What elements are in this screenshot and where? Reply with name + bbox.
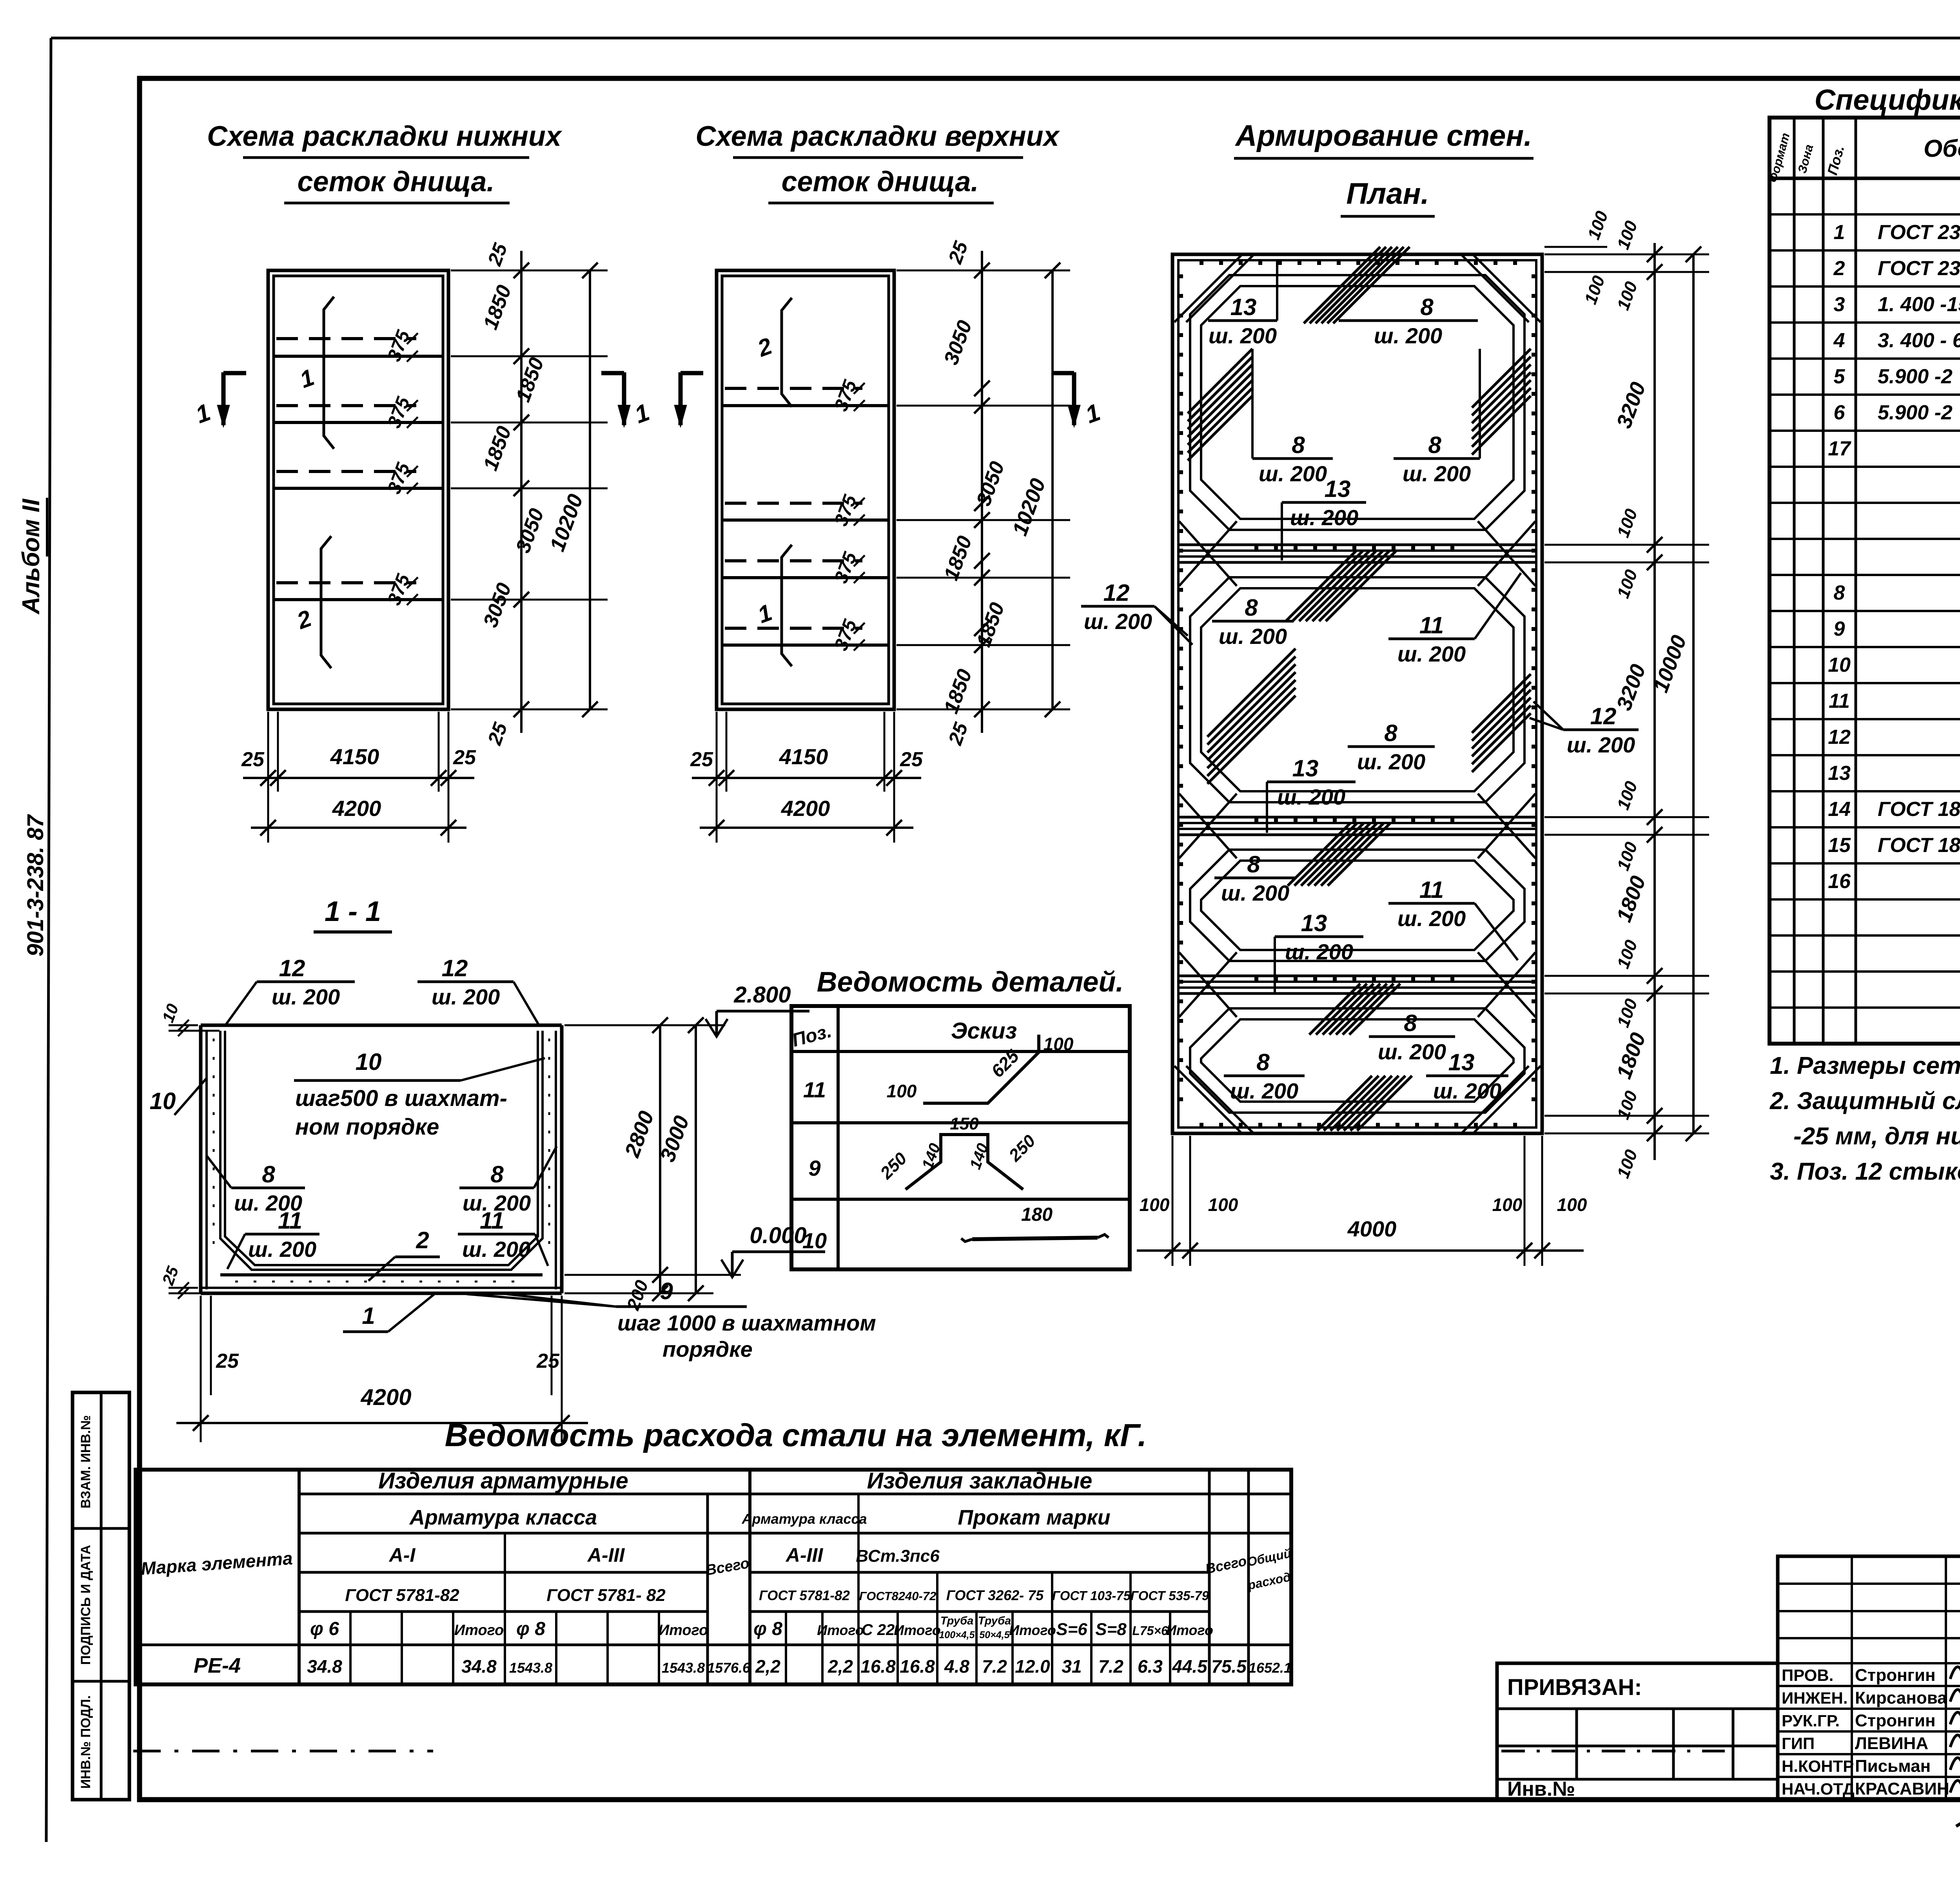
- section walls and slab: [201, 1024, 562, 1027]
- drawing 3 bottom dims 100 4000 100: [1137, 1249, 1584, 1252]
- section mark 1 left of drawing 1: [221, 372, 226, 425]
- svg-text:12: 12: [279, 955, 305, 981]
- svg-text:2.800: 2.800: [733, 982, 791, 1008]
- drawing 2 right extension lines: [897, 270, 1070, 272]
- svg-text:А-III: А-III: [785, 1544, 824, 1566]
- svg-text:ш. 200: ш. 200: [1277, 785, 1345, 809]
- svg-text:ГОСТ 103-75: ГОСТ 103-75: [1052, 1588, 1131, 1603]
- drawing 3 wall bar dots: [1179, 274, 1183, 1117]
- section bottom dims 25 4200 25: [200, 1296, 202, 1442]
- section wall bar dots: [213, 1039, 215, 1254]
- svg-text:ГОСТ 18599-83: ГОСТ 18599-83: [1878, 798, 1960, 821]
- svg-text:11: 11: [803, 1077, 826, 1102]
- svg-text:31: 31: [1062, 1656, 1082, 1677]
- svg-text:ш. 200: ш. 200: [1230, 1079, 1298, 1103]
- drawing 2 bottom extension lines: [716, 712, 718, 843]
- svg-text:11: 11: [278, 1207, 302, 1234]
- svg-text:13: 13: [1230, 294, 1257, 320]
- svg-text:ш. 200: ш. 200: [1290, 505, 1358, 530]
- fold dash-dot line: [133, 1750, 433, 1753]
- svg-text:13: 13: [1301, 910, 1327, 936]
- drawing 3 hatch groups: [1304, 247, 1380, 323]
- svg-text:50×4,5: 50×4,5: [979, 1630, 1010, 1641]
- svg-text:ш. 200: ш. 200: [1285, 939, 1353, 964]
- svg-text:180: 180: [1021, 1204, 1053, 1225]
- svg-text:ш. 200: ш. 200: [248, 1237, 316, 1262]
- drawing 3 bottom extension lines: [1172, 1136, 1174, 1266]
- svg-text:ш. 200: ш. 200: [1209, 323, 1277, 348]
- parts list table: [791, 1006, 1130, 1269]
- svg-text:1. 400 -15. В1. 120- 41: 1. 400 -15. В1. 120- 41: [1878, 293, 1960, 316]
- svg-text:25: 25: [536, 1350, 560, 1372]
- outer sheet border: [51, 37, 1960, 40]
- signature tail below frame: [1956, 1803, 1960, 1826]
- svg-text:10: 10: [150, 1088, 176, 1114]
- svg-text:Эскиз: Эскиз: [951, 1018, 1017, 1044]
- svg-text:РЕ-4: РЕ-4: [194, 1654, 241, 1677]
- svg-text:1543.8: 1543.8: [509, 1660, 552, 1676]
- svg-text:25: 25: [453, 746, 476, 769]
- svg-text:2. Защитный слой бетона для ст: 2. Защитный слой бетона для стен и верхн…: [1769, 1088, 1960, 1115]
- svg-text:Труба: Труба: [978, 1615, 1011, 1627]
- svg-text:ГОСТ 5781- 82: ГОСТ 5781- 82: [546, 1586, 666, 1605]
- drawing 1 mesh outline: [274, 276, 443, 704]
- svg-text:С 22: С 22: [862, 1621, 895, 1639]
- svg-text:шаг500 в шахмат-: шаг500 в шахмат-: [295, 1086, 507, 1111]
- svg-text:РУК.ГР.: РУК.ГР.: [1782, 1711, 1840, 1730]
- svg-text:6: 6: [1834, 401, 1846, 424]
- svg-text:Схема раскладки верхних: Схема раскладки верхних: [695, 121, 1060, 152]
- svg-text:2,2: 2,2: [828, 1656, 853, 1677]
- drawing 2 mesh mark 2 leader: [782, 298, 792, 407]
- svg-text:ГОСТ 5781-82: ГОСТ 5781-82: [759, 1588, 850, 1603]
- svg-text:Спецификация арматуры к РЕ: Спецификация арматуры к РЕ 4.: [1815, 83, 1960, 116]
- svg-text:Изделия арматурные: Изделия арматурные: [378, 1468, 628, 1494]
- svg-text:0.000: 0.000: [750, 1223, 806, 1248]
- svg-text:ГОСТ 18599-83: ГОСТ 18599-83: [1878, 834, 1960, 857]
- svg-text:4200: 4200: [332, 796, 381, 821]
- svg-text:4150: 4150: [330, 744, 379, 769]
- svg-text:ГОСТ 535-79: ГОСТ 535-79: [1131, 1588, 1209, 1603]
- svg-text:8: 8: [1404, 1010, 1417, 1036]
- svg-text:φ 8: φ 8: [516, 1619, 545, 1639]
- svg-text:13: 13: [1828, 762, 1851, 785]
- svg-text:S=8: S=8: [1095, 1620, 1127, 1639]
- section right dims 2800/3000/200: [564, 1293, 713, 1294]
- svg-text:1543.8: 1543.8: [662, 1660, 705, 1676]
- svg-text:шаг 1000 в шахматном: шаг 1000 в шахматном: [617, 1311, 876, 1335]
- svg-text:1652.1: 1652.1: [1249, 1660, 1292, 1676]
- svg-text:Армирование стен.: Армирование стен.: [1235, 119, 1532, 152]
- svg-text:1 - 1: 1 - 1: [325, 896, 381, 927]
- svg-text:7.2: 7.2: [1098, 1656, 1123, 1677]
- svg-text:8: 8: [1834, 582, 1845, 604]
- section mark 1 right of drawing 1: [622, 372, 626, 425]
- drawing 1 dim chain 1850/3050: [520, 251, 523, 733]
- svg-text:11: 11: [480, 1207, 504, 1234]
- svg-text:8: 8: [1247, 851, 1260, 877]
- svg-text:ГОСТ 23279-85: ГОСТ 23279-85: [1878, 221, 1960, 244]
- svg-text:25: 25: [690, 748, 713, 771]
- svg-text:4.8: 4.8: [944, 1656, 969, 1677]
- drawing 1 mesh sheet edges: [276, 337, 416, 340]
- svg-text:Итого: Итого: [1009, 1622, 1056, 1638]
- svg-text:Кирсанова: Кирсанова: [1855, 1688, 1947, 1708]
- svg-text:13: 13: [1292, 755, 1319, 781]
- svg-text:Изделия закладные: Изделия закладные: [867, 1468, 1093, 1494]
- svg-text:Стронгин: Стронгин: [1855, 1666, 1936, 1685]
- svg-text:7.2: 7.2: [982, 1656, 1007, 1677]
- drawing 1 mesh mark 2 leader: [321, 536, 331, 668]
- drawing 3 outer wall: [1172, 254, 1542, 1133]
- svg-text:8: 8: [1428, 432, 1441, 458]
- svg-text:3. 400 - 6/ 76: 3. 400 - 6/ 76: [1878, 329, 1960, 352]
- svg-text:ПРИВЯЗАН:: ПРИВЯЗАН:: [1507, 1675, 1642, 1700]
- drawing 2 overall dim 10200: [1051, 270, 1054, 709]
- svg-text:5.900 -2: 5.900 -2: [1878, 401, 1953, 424]
- svg-text:ЛЕВИНА: ЛЕВИНА: [1855, 1734, 1928, 1753]
- svg-text:11: 11: [1829, 690, 1850, 712]
- svg-text:Схема раскладки нижних: Схема раскладки нижних: [207, 121, 563, 152]
- svg-text:12.0: 12.0: [1015, 1656, 1050, 1677]
- svg-text:3: 3: [1834, 293, 1845, 316]
- drawing 2 dim chain 3050/1850: [981, 251, 983, 733]
- svg-text:25: 25: [900, 748, 923, 771]
- svg-text:4200: 4200: [360, 1385, 411, 1410]
- steel table frame: [136, 1470, 1291, 1684]
- spec table row lines: [1769, 213, 1960, 216]
- svg-text:порядке: порядке: [662, 1337, 753, 1361]
- svg-text:14: 14: [1828, 798, 1851, 821]
- svg-text:S=6: S=6: [1056, 1620, 1087, 1639]
- svg-text:100: 100: [1140, 1195, 1170, 1215]
- svg-text:ш. 200: ш. 200: [1221, 881, 1289, 905]
- svg-text:Арматура класса: Арматура класса: [742, 1511, 867, 1527]
- svg-text:2: 2: [416, 1227, 429, 1253]
- svg-text:ш. 200: ш. 200: [1084, 609, 1152, 634]
- left margin stamp strip: [73, 1392, 129, 1800]
- svg-text:34.8: 34.8: [461, 1656, 497, 1677]
- svg-text:Ведомость расхода стали на эле: Ведомость расхода стали на элемент, кГ.: [445, 1418, 1147, 1453]
- drawing 3 wall junction bar crossings: [1179, 521, 1237, 586]
- svg-text:План.: План.: [1346, 177, 1429, 210]
- svg-text:Итого: Итого: [1166, 1622, 1213, 1638]
- drawing 1 dim 25 4150 25: [243, 777, 474, 779]
- svg-text:Инв.№: Инв.№: [1507, 1778, 1575, 1800]
- drawing 1 dim 4200: [251, 827, 466, 829]
- svg-text:12: 12: [1828, 726, 1851, 749]
- sketch pos 10: [972, 1238, 1098, 1239]
- svg-text:ш. 200: ш. 200: [1374, 323, 1442, 348]
- svg-text:ГОСТ 23279-85: ГОСТ 23279-85: [1878, 257, 1960, 280]
- svg-text:8: 8: [1292, 432, 1305, 458]
- svg-text:Письман: Письман: [1855, 1757, 1931, 1776]
- svg-text:100: 100: [887, 1081, 917, 1101]
- svg-text:1576.6: 1576.6: [707, 1660, 751, 1676]
- svg-text:100: 100: [1557, 1195, 1587, 1215]
- svg-text:4200: 4200: [781, 796, 830, 821]
- svg-text:Итого: Итого: [659, 1622, 708, 1639]
- svg-text:ГОСТ 5781-82: ГОСТ 5781-82: [345, 1586, 459, 1605]
- drawing 2 mesh sheet edges: [725, 387, 862, 390]
- sketch pos 11: [923, 1035, 1039, 1103]
- svg-text:8: 8: [1245, 595, 1258, 621]
- svg-text:ГОСТ8240-72: ГОСТ8240-72: [859, 1589, 936, 1603]
- svg-text:10: 10: [1828, 654, 1851, 676]
- svg-text:13: 13: [1448, 1049, 1475, 1075]
- привязан block: [1497, 1663, 1778, 1800]
- svg-text:12: 12: [1590, 703, 1617, 729]
- svg-text:КРАСАВИН: КРАСАВИН: [1855, 1779, 1949, 1798]
- svg-text:Н.КОНТР: Н.КОНТР: [1782, 1757, 1854, 1775]
- drawing 2 mesh outline: [722, 276, 889, 704]
- svg-text:ВЗАМ. ИНВ.№: ВЗАМ. ИНВ.№: [78, 1415, 93, 1508]
- svg-text:75.5: 75.5: [1211, 1656, 1247, 1677]
- svg-text:Обозначение: Обозначение: [1924, 135, 1960, 162]
- svg-text:8: 8: [490, 1161, 504, 1187]
- signature block: [1778, 1556, 1960, 1800]
- svg-text:ш. 200: ш. 200: [1403, 461, 1471, 486]
- drawing 1 bottom extension lines: [267, 712, 269, 843]
- svg-text:Итого: Итого: [894, 1622, 941, 1638]
- svg-text:НАЧ.ОТД: НАЧ.ОТД: [1782, 1780, 1855, 1798]
- drawing 3 cell liners (octagons): [1190, 275, 1524, 530]
- svg-text:11: 11: [1419, 877, 1444, 903]
- svg-text:25: 25: [216, 1350, 239, 1372]
- svg-text:11: 11: [1419, 612, 1444, 638]
- drawing 3 top 100 dims: [1544, 246, 1607, 248]
- svg-text:А-III: А-III: [587, 1544, 625, 1566]
- svg-text:100: 100: [1492, 1195, 1523, 1215]
- svg-text:8: 8: [262, 1161, 275, 1187]
- spec table frame: [1769, 118, 1960, 1044]
- svg-text:16: 16: [1828, 870, 1851, 893]
- svg-text:2: 2: [1833, 257, 1845, 280]
- svg-text:сеток днища.: сеток днища.: [782, 166, 979, 198]
- svg-text:Альбом II: Альбом II: [18, 498, 45, 615]
- drawing 3 overall dim 10000: [1692, 254, 1695, 1133]
- svg-text:ш. 200: ш. 200: [1397, 642, 1466, 666]
- drawing 2 tank outline: [717, 270, 894, 709]
- svg-text:1: 1: [362, 1303, 375, 1329]
- svg-text:8: 8: [1384, 720, 1397, 746]
- drawing 1 mesh mark 1 leader: [324, 297, 334, 449]
- drawing 1 overall dim 10200: [589, 270, 591, 709]
- svg-text:12: 12: [442, 955, 468, 981]
- svg-text:Труба: Труба: [940, 1615, 974, 1627]
- svg-text:ш. 200: ш. 200: [1397, 906, 1466, 931]
- svg-text:Итого: Итого: [454, 1622, 504, 1639]
- svg-text:Стронгин: Стронгин: [1855, 1711, 1936, 1730]
- svg-text:ИНВ.№ ПОДЛ.: ИНВ.№ ПОДЛ.: [78, 1695, 93, 1789]
- drawing 2 dim 25 4150 25: [692, 777, 921, 779]
- svg-text:ш. 200: ш. 200: [462, 1237, 530, 1262]
- section inner liner: [220, 1031, 543, 1270]
- svg-text:ГОСТ 3262- 75: ГОСТ 3262- 75: [946, 1587, 1044, 1603]
- svg-text:5.900 -2: 5.900 -2: [1878, 365, 1953, 388]
- svg-text:25: 25: [241, 748, 265, 771]
- svg-text:10: 10: [356, 1049, 382, 1075]
- svg-text:4: 4: [1833, 329, 1845, 352]
- svg-text:3. Поз. 12 стыковать вразбежк: 3. Поз. 12 стыковать вразбежку с перехле…: [1770, 1158, 1960, 1185]
- steel table horizontal lines: [299, 1493, 1291, 1496]
- svg-text:4000: 4000: [1347, 1216, 1397, 1241]
- svg-text:6.3: 6.3: [1138, 1656, 1163, 1677]
- svg-text:8: 8: [1256, 1049, 1270, 1075]
- drawing 3 inner wall face: [1178, 260, 1536, 1128]
- svg-text:Арматура класса: Арматура класса: [409, 1506, 597, 1529]
- svg-text:ш. 200: ш. 200: [432, 984, 500, 1009]
- drawing 3 right extension lines: [1544, 254, 1709, 256]
- svg-text:ш. 200: ш. 200: [1357, 749, 1425, 774]
- svg-text:12: 12: [1103, 580, 1130, 606]
- svg-text:17: 17: [1828, 437, 1851, 460]
- svg-text:L75×6: L75×6: [1132, 1624, 1168, 1638]
- svg-text:ПОДПИСЬ И ДАТА: ПОДПИСЬ И ДАТА: [78, 1545, 93, 1665]
- section mark 1 right of drawing 2: [1072, 372, 1076, 425]
- svg-text:34.8: 34.8: [307, 1656, 342, 1677]
- section mark left of drawing 2: [679, 372, 683, 425]
- svg-text:10: 10: [802, 1228, 827, 1253]
- svg-text:5: 5: [1834, 365, 1846, 388]
- drawing 3 corner bars: [1174, 255, 1242, 322]
- svg-text:44.5: 44.5: [1172, 1656, 1208, 1677]
- svg-text:Прокат марки: Прокат марки: [958, 1506, 1110, 1529]
- drawing 1 right extension lines: [451, 270, 608, 272]
- section left dims 10/25: [169, 1024, 198, 1026]
- svg-text:ном порядке: ном порядке: [295, 1114, 439, 1140]
- svg-text:ш. 200: ш. 200: [1433, 1079, 1501, 1103]
- svg-text:16.8: 16.8: [860, 1656, 896, 1677]
- svg-text:901-3-238. 87: 901-3-238. 87: [23, 814, 48, 957]
- drawing 3 internal walls: [1178, 544, 1536, 546]
- svg-text:8: 8: [1420, 294, 1434, 320]
- svg-text:ш. 200: ш. 200: [272, 984, 340, 1009]
- svg-text:Ведомость деталей.: Ведомость деталей.: [817, 966, 1124, 998]
- steel table vertical lines: [298, 1470, 301, 1684]
- svg-text:сеток днища.: сеток днища.: [298, 166, 495, 198]
- svg-text:1. Размеры сеток даны по их г: 1. Размеры сеток даны по их габариту.: [1770, 1052, 1960, 1079]
- svg-text:ш. 200: ш. 200: [1219, 624, 1287, 649]
- svg-text:ш. 200: ш. 200: [1567, 732, 1635, 757]
- svg-text:φ 8: φ 8: [753, 1619, 782, 1639]
- svg-text:150: 150: [950, 1114, 979, 1133]
- svg-text:9: 9: [1834, 618, 1845, 640]
- svg-text:ш. 200: ш. 200: [1378, 1039, 1446, 1064]
- svg-text:4150: 4150: [779, 744, 828, 769]
- svg-text:100: 100: [1044, 1034, 1074, 1054]
- svg-text:φ 6: φ 6: [310, 1619, 339, 1639]
- svg-text:ПРОВ.: ПРОВ.: [1782, 1666, 1833, 1684]
- svg-text:ВСт.3пс6: ВСт.3пс6: [856, 1546, 940, 1566]
- svg-text:15: 15: [1828, 834, 1851, 857]
- drawing 1 tank outline: [268, 270, 448, 709]
- svg-text:ГИП: ГИП: [1782, 1734, 1815, 1753]
- svg-text:100×4,5: 100×4,5: [939, 1630, 975, 1641]
- svg-text:9: 9: [808, 1156, 820, 1180]
- svg-text:1: 1: [1834, 221, 1845, 244]
- svg-text:13: 13: [1325, 476, 1351, 502]
- sketch pos 9: [906, 1135, 1023, 1189]
- drawing 3 dim chain 3200/1800 + 100s: [1653, 243, 1656, 1160]
- svg-text:-25 мм, для нижних сеток днища: -25 мм, для нижних сеток днища - 35мм.: [1793, 1123, 1960, 1150]
- svg-text:А-I: А-I: [388, 1544, 416, 1566]
- svg-text:ш. 200: ш. 200: [1259, 461, 1327, 486]
- svg-text:ИНЖЕН.: ИНЖЕН.: [1782, 1689, 1848, 1707]
- drawing 2 mesh mark 1 leader: [782, 545, 792, 666]
- svg-text:Итого: Итого: [817, 1622, 864, 1638]
- svg-text:16.8: 16.8: [900, 1656, 935, 1677]
- svg-text:100: 100: [1208, 1195, 1238, 1215]
- svg-text:2,2: 2,2: [755, 1656, 780, 1677]
- drawing 2 dim 4200: [700, 827, 913, 829]
